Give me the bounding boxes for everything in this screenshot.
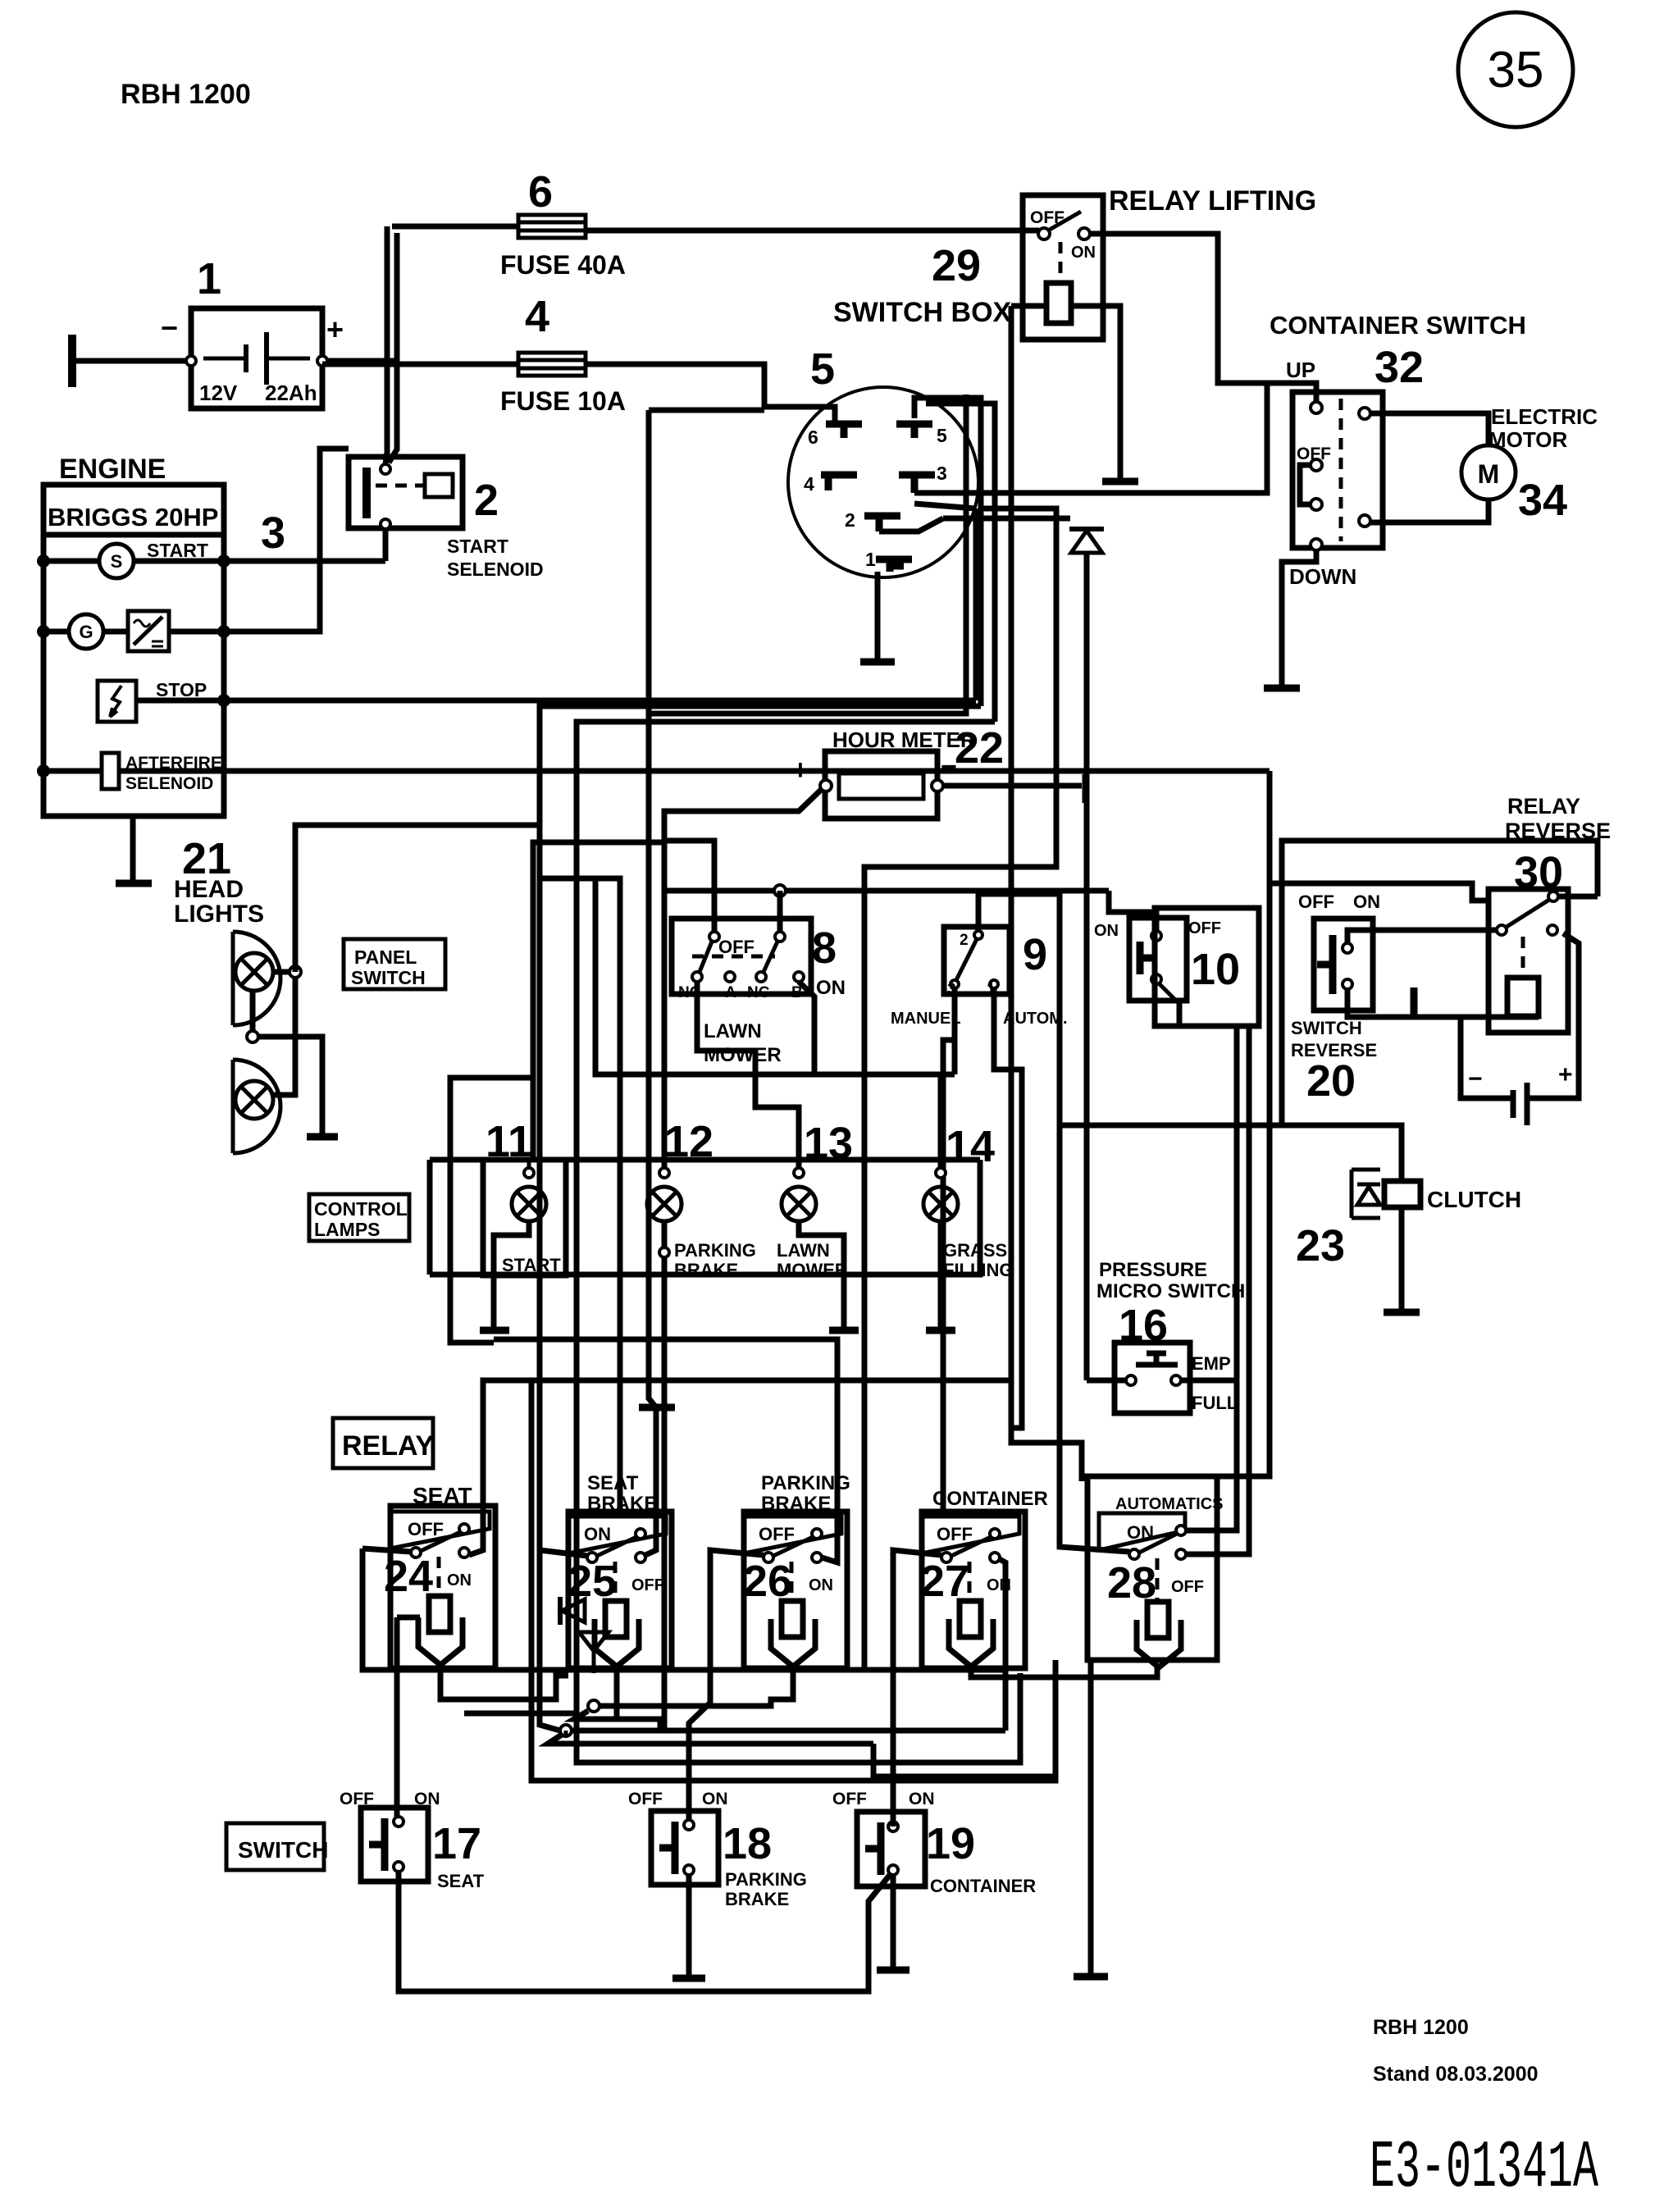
svg-text:ON: ON (447, 1571, 472, 1589)
svg-text:STOP: STOP (156, 679, 207, 700)
svg-text:SWITCH: SWITCH (1291, 1018, 1362, 1038)
svg-text:MOWER: MOWER (704, 1044, 782, 1066)
svg-text:−: − (941, 751, 957, 782)
svg-text:BRAKE: BRAKE (674, 1260, 738, 1280)
svg-text:17: 17 (432, 1819, 481, 1868)
svg-text:CONTROL: CONTROL (314, 1198, 408, 1220)
svg-text:SEAT: SEAT (437, 1871, 485, 1891)
svg-text:LAMPS: LAMPS (314, 1219, 381, 1240)
svg-text:CLUTCH: CLUTCH (1427, 1187, 1521, 1212)
svg-text:1: 1 (197, 254, 221, 303)
svg-text:+: + (326, 312, 344, 346)
svg-text:SEAT: SEAT (587, 1472, 639, 1494)
svg-text:UP: UP (1286, 358, 1315, 382)
svg-text:OFF: OFF (1171, 1578, 1204, 1596)
svg-text:GRASS: GRASS (943, 1240, 1007, 1261)
svg-text:PRESSURE: PRESSURE (1099, 1259, 1207, 1281)
svg-text:OFF: OFF (937, 1524, 973, 1544)
svg-text:10: 10 (1191, 945, 1240, 994)
svg-text:2: 2 (960, 932, 969, 949)
svg-text:ON: ON (1353, 892, 1380, 912)
svg-text:OFF: OFF (759, 1524, 795, 1544)
svg-text:RELAY LIFTING: RELAY LIFTING (1109, 185, 1316, 217)
svg-text:34: 34 (1518, 476, 1567, 525)
svg-text:OFF: OFF (408, 1519, 444, 1539)
svg-text:6: 6 (808, 426, 818, 448)
svg-text:RBH 1200: RBH 1200 (1373, 2016, 1469, 2039)
svg-text:22: 22 (955, 723, 1004, 773)
svg-text:PARKING: PARKING (725, 1869, 807, 1890)
svg-text:4: 4 (804, 473, 814, 495)
svg-text:FULL: FULL (1192, 1393, 1238, 1413)
svg-text:22Ah: 22Ah (265, 381, 317, 405)
svg-text:12V: 12V (199, 381, 238, 405)
svg-text:23: 23 (1296, 1221, 1345, 1270)
svg-text:PARKING: PARKING (674, 1240, 756, 1261)
svg-text:ENGINE: ENGINE (59, 454, 166, 485)
svg-text:SWITCH BOX: SWITCH BOX (833, 297, 1012, 328)
svg-text:SELENOID: SELENOID (125, 774, 213, 793)
svg-text:OFF: OFF (628, 1790, 663, 1808)
svg-text:EMP: EMP (1192, 1353, 1231, 1374)
svg-text:SELENOID: SELENOID (447, 559, 544, 580)
svg-text:18: 18 (723, 1819, 772, 1868)
svg-text:ON: ON (1071, 244, 1096, 262)
svg-text:19: 19 (926, 1819, 975, 1868)
svg-text:OFF: OFF (832, 1790, 867, 1808)
svg-text:ELECTRIC: ELECTRIC (1491, 404, 1598, 429)
svg-text:LAWN: LAWN (704, 1020, 762, 1042)
svg-text:OFF: OFF (1188, 919, 1221, 937)
svg-text:NC: NC (747, 984, 770, 1001)
svg-text:S: S (111, 551, 123, 572)
svg-text:START: START (502, 1255, 561, 1275)
svg-text:START: START (147, 540, 208, 561)
svg-text:RELAY: RELAY (1507, 794, 1580, 819)
svg-text:MANUEL: MANUEL (891, 1010, 961, 1028)
svg-text:+: + (792, 755, 809, 786)
svg-text:G: G (79, 622, 93, 642)
svg-text:M: M (1478, 459, 1500, 489)
svg-text:20: 20 (1306, 1056, 1356, 1106)
svg-text:5: 5 (937, 425, 947, 446)
svg-text:ON: ON (1127, 1522, 1154, 1543)
svg-text:FUSE 40A: FUSE 40A (500, 250, 626, 280)
svg-text:29: 29 (932, 241, 981, 290)
svg-text:CONTAINER: CONTAINER (932, 1488, 1048, 1510)
svg-text:3: 3 (261, 509, 285, 558)
svg-text:RELAY: RELAY (342, 1430, 434, 1462)
svg-text:HEAD: HEAD (174, 876, 244, 903)
svg-text:ON: ON (1094, 922, 1119, 940)
svg-text:32: 32 (1375, 343, 1424, 392)
svg-text:24: 24 (384, 1552, 433, 1601)
svg-text:E3-01341A: E3-01341A (1370, 2130, 1599, 2206)
svg-text:−: − (1468, 1065, 1483, 1092)
svg-text:3: 3 (937, 463, 947, 484)
svg-text:PANEL: PANEL (354, 946, 417, 968)
svg-text:SWITCH: SWITCH (238, 1837, 328, 1863)
svg-text:4: 4 (525, 292, 549, 341)
svg-text:FUSE 10A: FUSE 10A (500, 386, 626, 416)
svg-text:8: 8 (812, 924, 837, 973)
svg-text:A: A (725, 984, 736, 1001)
svg-text:SWITCH: SWITCH (351, 967, 426, 988)
svg-text:2: 2 (845, 509, 855, 531)
svg-text:ON: ON (584, 1524, 611, 1544)
svg-text:BRAKE: BRAKE (725, 1889, 789, 1909)
svg-text:CONTAINER: CONTAINER (930, 1876, 1036, 1896)
svg-text:AUTOM.: AUTOM. (1003, 1010, 1068, 1028)
svg-text:2: 2 (474, 476, 499, 525)
svg-text:OFF: OFF (1298, 892, 1334, 912)
svg-text:6: 6 (528, 167, 553, 217)
svg-text:OFF: OFF (1297, 445, 1331, 463)
svg-text:FILLING: FILLING (943, 1260, 1014, 1280)
svg-text:OFF: OFF (631, 1576, 664, 1594)
svg-text:ON: ON (909, 1790, 935, 1808)
svg-text:RBH 1200: RBH 1200 (121, 79, 251, 110)
svg-text:PARKING: PARKING (761, 1472, 850, 1494)
svg-text:14: 14 (946, 1122, 995, 1171)
svg-text:ON: ON (702, 1790, 728, 1808)
svg-text:START: START (447, 536, 508, 557)
svg-text:CONTAINER SWITCH: CONTAINER SWITCH (1270, 311, 1526, 340)
svg-text:BRIGGS 20HP: BRIGGS 20HP (48, 503, 218, 531)
svg-text:+: + (1558, 1061, 1573, 1088)
svg-text:35: 35 (1488, 42, 1544, 98)
svg-text:Stand 08.03.2000: Stand 08.03.2000 (1373, 2063, 1539, 2086)
svg-text:AUTOMATICS: AUTOMATICS (1115, 1495, 1223, 1513)
svg-text:1: 1 (865, 549, 876, 570)
svg-text:ON: ON (809, 1576, 833, 1594)
svg-text:MICRO SWITCH: MICRO SWITCH (1096, 1280, 1245, 1302)
svg-text:DOWN: DOWN (1289, 564, 1356, 589)
svg-text:ON: ON (816, 977, 846, 999)
svg-text:9: 9 (1023, 930, 1047, 979)
svg-text:LIGHTS: LIGHTS (174, 901, 264, 928)
svg-text:−: − (161, 311, 178, 344)
svg-text:5: 5 (810, 344, 835, 394)
svg-text:OFF: OFF (718, 937, 754, 957)
svg-text:MOWER: MOWER (777, 1260, 848, 1280)
svg-text:LAWN: LAWN (777, 1240, 830, 1261)
